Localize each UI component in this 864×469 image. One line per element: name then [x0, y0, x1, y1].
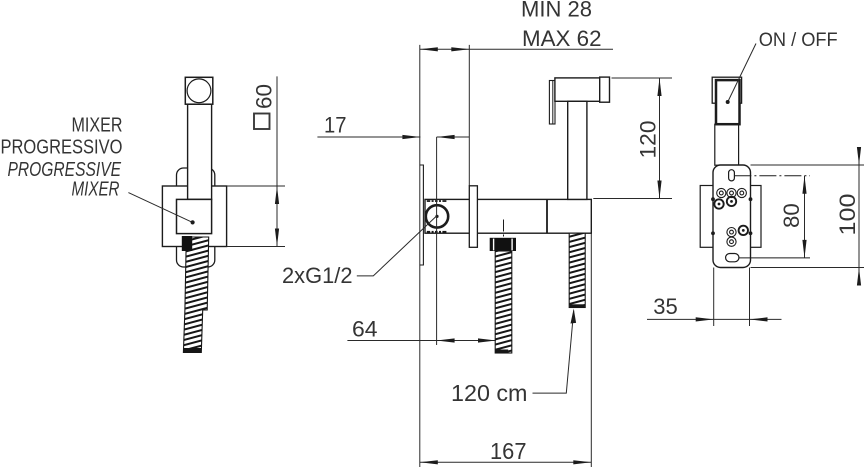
edge dots — [711, 197, 752, 235]
min/max arrow right — [451, 47, 469, 51]
black connector (middle) — [490, 238, 516, 251]
dimension 120 extension bottom — [593, 198, 672, 200]
head outer plate (right view) — [712, 77, 741, 103]
svg-text:120: 120 — [636, 121, 661, 159]
min/max arrow left — [420, 47, 438, 51]
bold hole left — [714, 197, 748, 235]
wall section line — [420, 165, 424, 265]
svg-text:64: 64 — [352, 317, 378, 342]
leader 120cm arrow — [571, 309, 577, 324]
handle (left view) — [188, 104, 212, 199]
svg-text:35: 35 — [653, 294, 678, 319]
centerline dash-dot from top slot — [734, 175, 810, 177]
wall plate 60x60 — [162, 186, 226, 247]
dim 167 arrow right — [573, 460, 591, 464]
wall bracket holder — [177, 168, 215, 267]
dimension 60 extension line top — [227, 185, 285, 187]
dim 64 arrow left — [437, 338, 455, 342]
centerline above connector — [503, 220, 505, 237]
hose end cap — [183, 348, 201, 352]
svg-text:17: 17 — [324, 113, 347, 138]
dim 35 arrow left-pointing — [750, 317, 768, 321]
dim 120 arrow down — [657, 181, 661, 199]
leader on/off — [728, 44, 756, 103]
top slot — [729, 170, 735, 181]
svg-text:100: 100 — [835, 194, 860, 236]
dimension 80 line — [804, 176, 806, 258]
head cap — [600, 77, 610, 102]
head body thick (right view) — [716, 80, 740, 124]
leader on/off dot — [726, 100, 730, 104]
progressive knob — [426, 205, 448, 227]
svg-text:80: 80 — [779, 203, 804, 228]
leader 2xG1/2 — [357, 217, 436, 276]
line from bottom slot — [739, 257, 810, 259]
dimension 100 extension bottom — [751, 267, 864, 269]
extension line knob center — [436, 137, 438, 345]
connector slit right — [511, 239, 513, 251]
dimension 35 line — [647, 318, 782, 320]
black hose connector — [182, 236, 192, 251]
hose (left view) — [183, 237, 208, 352]
bold hole bottom right — [739, 226, 748, 235]
dimension square-60 text — [252, 84, 277, 129]
hole bottom mid — [727, 228, 736, 237]
dimension 167 line — [420, 461, 592, 463]
spray plate inner line — [552, 81, 554, 125]
dim 64 arrow right — [478, 338, 496, 342]
extension line escutcheon — [468, 45, 470, 186]
concealed body (behind plate) — [700, 186, 761, 248]
dim 80 arrow down — [802, 240, 806, 258]
dim 80 arrow up — [802, 176, 806, 194]
spray plate (middle head) — [549, 81, 555, 125]
dimension 100 line — [858, 147, 860, 286]
svg-text:PROGRESSIVO: PROGRESSIVO — [1, 136, 123, 159]
svg-text:120 cm: 120 cm — [451, 380, 528, 406]
leader dot mixer label — [191, 220, 195, 224]
dim 167 arrow left — [420, 460, 438, 464]
hole top row 2 — [727, 188, 736, 197]
knurl strip top — [427, 200, 447, 202]
dimension 64 line — [347, 340, 496, 342]
bold hole mid — [727, 197, 736, 206]
svg-text:2xG1/2: 2xG1/2 — [282, 263, 353, 288]
dimension 17 line — [317, 136, 420, 138]
svg-text:ON / OFF: ON / OFF — [759, 30, 838, 51]
dimension 60 arrow down — [275, 229, 279, 247]
leader line mixer label — [128, 193, 192, 223]
dimension 60 arrow up — [275, 186, 279, 204]
knob center dot — [435, 215, 438, 218]
dim 17 arrow right-pointing — [402, 135, 420, 139]
dim 100 arrow top — [857, 147, 861, 165]
svg-text:MIXER: MIXER — [72, 177, 120, 200]
dimension 60 extension line bottom — [227, 246, 285, 248]
connector slit left — [493, 239, 495, 251]
leader 120cm horizontal — [533, 311, 574, 394]
dimension 100 extension top — [751, 164, 864, 166]
extension line left (wall / 167) — [419, 45, 421, 467]
mixer body (middle view) — [425, 199, 591, 233]
dimension MIN/MAX line — [420, 48, 613, 50]
dim 35 arrow right-pointing — [696, 317, 714, 321]
dimension 120 line — [659, 78, 661, 199]
dimension 120 extension top — [612, 77, 673, 79]
svg-text:MIXER: MIXER — [72, 113, 123, 136]
bold hole dots — [718, 200, 745, 232]
dim 17 arrow left-pointing — [437, 135, 455, 139]
extension lines 35 — [713, 268, 715, 327]
long hose (120 cm) — [569, 233, 585, 307]
spray face circle — [187, 79, 211, 103]
knurl strip bottom — [427, 231, 447, 233]
extension line body right — [590, 233, 592, 467]
dim 120 arrow up — [657, 78, 661, 96]
dimension 60 line — [276, 76, 278, 246]
hole bottom low — [727, 237, 736, 246]
head body (middle view) — [555, 78, 600, 101]
svg-text:167: 167 — [490, 438, 527, 464]
long hose end dark — [570, 304, 585, 307]
hose end dark — [495, 350, 508, 354]
dim 100 arrow bottom — [857, 268, 861, 286]
escutcheon plate — [469, 186, 477, 248]
bottom slot — [726, 254, 739, 262]
shower head (left view) — [185, 77, 213, 104]
label MIXER PROGRESSIVO — [1, 113, 123, 200]
body divider line — [546, 199, 548, 233]
handle (middle view) — [568, 101, 587, 199]
svg-text:MIN 28: MIN 28 — [521, 0, 592, 22]
holder plate (right view) — [713, 165, 751, 268]
hole top row 1 — [717, 188, 747, 246]
handle (right view) — [715, 124, 739, 165]
mixer body square — [177, 199, 212, 233]
svg-text:60: 60 — [252, 84, 277, 109]
hose below connector — [495, 251, 512, 353]
hole top row 3 — [737, 188, 746, 197]
svg-text:MAX 62: MAX 62 — [522, 26, 602, 51]
